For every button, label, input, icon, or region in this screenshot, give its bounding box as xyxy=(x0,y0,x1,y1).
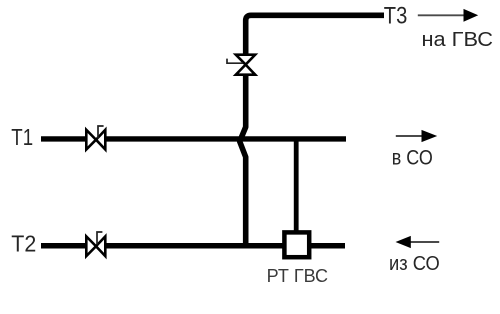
valve V1 stem (handle to the left) xyxy=(227,59,243,64)
svg-text:Т2: Т2 xyxy=(11,230,36,256)
svg-text:из СО: из СО xyxy=(389,252,440,275)
svg-text:РТ ГВС: РТ ГВС xyxy=(267,266,329,286)
wire: branch from T1 down to regulator xyxy=(294,139,299,231)
valve V3 stem (handle up) xyxy=(97,232,102,245)
arrow: into СО (right) xyxy=(396,135,423,137)
wire: T2 return line right segment xyxy=(311,243,345,249)
wire: T2 return line left segment xyxy=(41,243,86,249)
arrow: to ГВС (right) xyxy=(418,14,465,16)
valve V2 stem (handle up) xyxy=(98,126,104,139)
valve V2 on T1 line (hollow bowtie, horizontal) xyxy=(86,130,105,150)
wire: T1 supply line right segment xyxy=(106,136,346,141)
wire: riser from valve down with crossing jog over T1 to T2 line xyxy=(240,74,246,249)
svg-text:на ГВС: на ГВС xyxy=(422,29,494,51)
arrow: out of СО (left) xyxy=(410,241,439,243)
wire: T3 riser pipe (top horizontal run + elbow + down to valve) xyxy=(246,15,384,55)
svg-text:Т3: Т3 xyxy=(384,2,408,29)
valve V1 on riser (hollow bowtie, vertical) xyxy=(236,55,255,75)
regulator РТ ГВС (hollow box on T2 line) xyxy=(284,232,309,257)
svg-text:Т1: Т1 xyxy=(11,124,33,150)
valve V3 on T2 line (hollow bowtie, horizontal) xyxy=(86,236,105,256)
wire: T1 supply line left segment xyxy=(41,136,86,141)
wire: T2 return line middle segment xyxy=(106,243,283,249)
svg-text:в СО: в СО xyxy=(392,146,433,170)
